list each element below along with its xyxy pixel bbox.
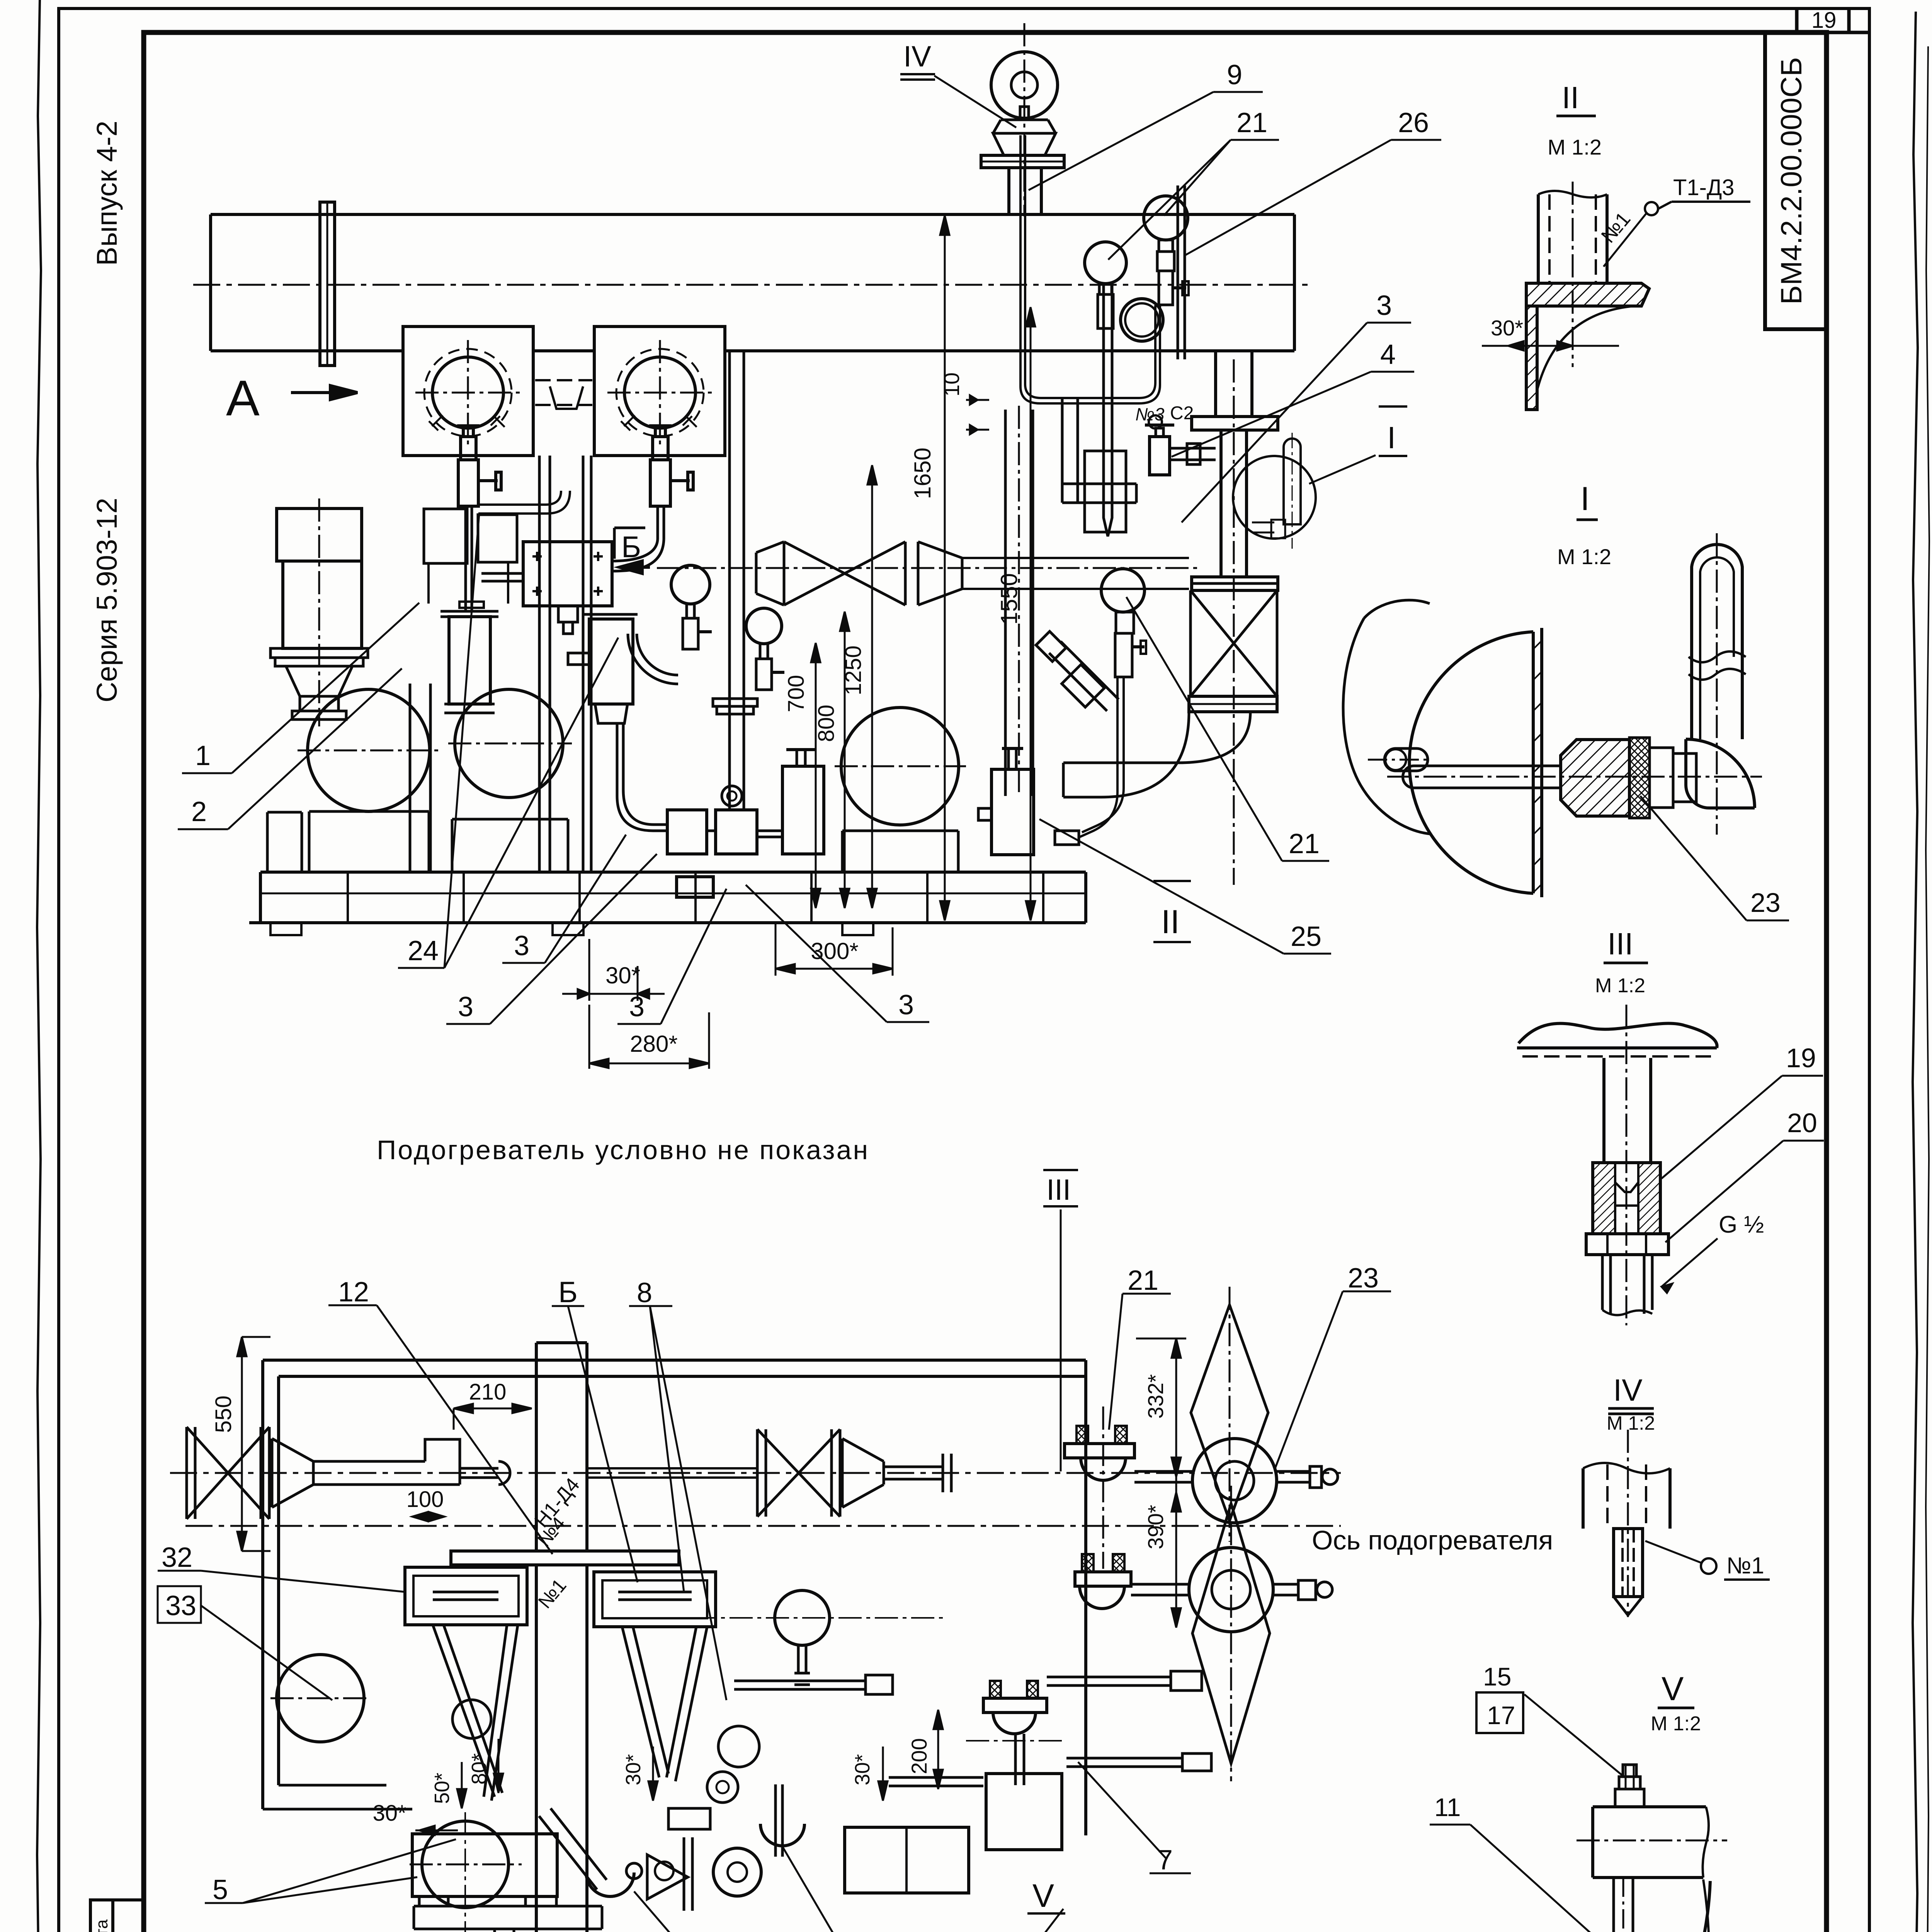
detail I dome arc <box>1409 632 1533 893</box>
svg-text:1250: 1250 <box>841 645 866 695</box>
dim 700 <box>815 643 817 908</box>
svg-text:3: 3 <box>1376 290 1392 321</box>
plan cone 2 <box>842 1439 884 1507</box>
plan pipe between <box>587 1468 757 1478</box>
detail II bracket curve <box>1537 306 1634 390</box>
svg-text:5: 5 <box>213 1874 228 1905</box>
svg-text:Б: Б <box>558 1276 578 1309</box>
svg-text:19: 19 <box>1786 1043 1816 1073</box>
plan fitting step <box>425 1439 510 1485</box>
gauge right 2 <box>1085 242 1126 284</box>
callout 21 low <box>1126 597 1329 861</box>
svg-text:БМ4.2.2.00.000СБ: БМ4.2.2.00.000СБ <box>1775 57 1808 305</box>
callout 5 <box>205 1839 456 1903</box>
callout Б <box>552 1306 638 1582</box>
svg-text:С2: С2 <box>1170 403 1194 423</box>
clamp assembly 1 <box>1065 1444 1134 1458</box>
svg-text:I: I <box>1387 420 1396 455</box>
gauge right 1 <box>1144 196 1188 240</box>
svg-text:М 1:2: М 1:2 <box>1548 135 1602 159</box>
gauge on stand pipe <box>1101 569 1145 612</box>
plan central column <box>536 1343 587 1932</box>
detail III mushroom cap <box>1519 1023 1717 1048</box>
svg-text:24: 24 <box>408 935 439 966</box>
callout 24 <box>398 514 618 968</box>
vertical drop pipe to valve train <box>730 351 744 811</box>
svg-text:19: 19 <box>1811 8 1837 33</box>
curved pipe from nozzle2 stem to box <box>612 539 664 571</box>
svg-text:20: 20 <box>1787 1108 1817 1138</box>
svg-text:IV: IV <box>1613 1373 1643 1407</box>
svg-text:210: 210 <box>469 1379 507 1405</box>
donut bottom middle <box>713 1848 761 1896</box>
callout 23 plan <box>1275 1291 1391 1468</box>
tray plate <box>451 1551 679 1565</box>
right vessel center <box>589 619 633 704</box>
flange above X valve <box>1190 582 1277 585</box>
plan trays <box>405 1567 527 1625</box>
svg-text:II: II <box>1161 903 1180 940</box>
diag fitting 45 <box>1049 641 1119 711</box>
svg-text:30*: 30* <box>372 1801 406 1826</box>
detail V bolt <box>1615 1789 1644 1807</box>
scan edge left <box>37 0 41 1932</box>
safety valve top <box>991 52 1058 118</box>
svg-text:11: 11 <box>1434 1793 1461 1821</box>
stand column between plates <box>539 456 591 872</box>
clamp circle mid <box>586 1872 634 1896</box>
dim 280* <box>588 1005 590 1069</box>
dim 550 <box>241 1337 243 1551</box>
pedestal pump3 <box>842 831 958 872</box>
right small vessel <box>782 766 824 854</box>
dim 1650 <box>944 216 946 920</box>
dim 30* right <box>882 1747 884 1801</box>
valve stem under nozzle 2 <box>649 426 693 539</box>
dim 390* <box>1175 1477 1177 1628</box>
svg-text:А: А <box>226 370 260 426</box>
plan outer frame <box>263 1360 1086 1835</box>
valve stem under nozzle 1 <box>457 426 501 611</box>
plan pipe axis 2 <box>185 1525 1341 1527</box>
svg-text:М 1:2: М 1:2 <box>1651 1713 1701 1735</box>
dim 800 <box>844 612 846 908</box>
svg-text:III: III <box>1046 1173 1071 1206</box>
svg-text:390*: 390* <box>1143 1505 1168 1549</box>
dim 1550 <box>1030 307 1032 920</box>
svg-text:200: 200 <box>907 1738 931 1774</box>
heater blob wavy <box>1343 600 1430 834</box>
stamp column frames <box>90 1900 143 1932</box>
right column nozzle <box>1216 351 1252 417</box>
callout 3c <box>617 889 726 1024</box>
gauge mid 1 <box>671 565 710 604</box>
dim 80* <box>498 1739 500 1793</box>
small round valve <box>722 786 742 806</box>
svg-text:21: 21 <box>1128 1265 1158 1296</box>
detail circle I <box>1233 456 1316 539</box>
detail IV label <box>1701 1558 1716 1574</box>
marker I leader <box>1309 455 1376 484</box>
detail II bracket horizontal leg <box>1526 283 1649 306</box>
UPPERVIEW <box>193 23 1430 935</box>
base frame <box>249 872 1086 923</box>
lower cross rod <box>734 1675 893 1694</box>
valve train cone left <box>756 542 784 605</box>
svg-text:30*: 30* <box>851 1754 874 1785</box>
heater pipe shell <box>211 214 1294 351</box>
nozzle circle 2 <box>624 357 696 428</box>
siphon circle <box>1121 299 1163 341</box>
svg-text:700: 700 <box>784 675 809 713</box>
svg-text:280*: 280* <box>630 1031 677 1057</box>
detail V pipe <box>1593 1807 1706 1878</box>
svg-text:8: 8 <box>637 1277 652 1308</box>
detail III hex flange <box>1586 1234 1668 1255</box>
motor unit left <box>277 509 362 561</box>
support box right of valve rod <box>478 515 517 562</box>
dim 30* <box>588 939 590 1001</box>
svg-text:V: V <box>1032 1878 1054 1914</box>
dim 100 <box>412 1516 444 1518</box>
svg-text:I: I <box>1580 480 1590 517</box>
small donut above <box>707 1772 738 1803</box>
view marker Б <box>626 566 650 569</box>
donut 1 <box>1192 1439 1277 1523</box>
u-clamp plate right <box>776 1784 782 1857</box>
dimensions upper view <box>562 216 1035 1069</box>
big rect bottom right <box>845 1827 969 1893</box>
posts near pump2 <box>410 684 430 872</box>
dim 300* <box>775 923 777 976</box>
detail I gland <box>1561 740 1629 816</box>
impulse tube from gauge down <box>1078 677 1124 838</box>
svg-text:30*: 30* <box>605 963 640 988</box>
svg-text:III: III <box>1607 927 1633 961</box>
diagonal strap <box>539 1808 607 1889</box>
dim 30* mid <box>652 1747 654 1801</box>
donut 2 <box>1189 1548 1273 1632</box>
detail III nut block <box>1593 1163 1660 1234</box>
doc number box vertical <box>1765 32 1827 329</box>
detail IV stub <box>1614 1529 1643 1597</box>
svg-text:2: 2 <box>191 796 207 827</box>
pump volute 1 <box>308 689 430 811</box>
detail I elbow <box>1686 739 1755 808</box>
callout 7 right <box>1078 1762 1191 1873</box>
detail IV pipe <box>1583 1468 1670 1529</box>
svg-text:9: 9 <box>1227 60 1242 90</box>
svg-text:№1: №1 <box>1597 208 1635 247</box>
lower pump assembly plan <box>412 1834 557 1896</box>
svg-text:100: 100 <box>406 1487 444 1512</box>
svg-text:26: 26 <box>1398 107 1429 138</box>
needle valve <box>1150 437 1170 475</box>
detail III threaded stem <box>1602 1255 1652 1314</box>
svg-text:7: 7 <box>1157 1845 1173 1876</box>
svg-text:G ½: G ½ <box>1719 1211 1764 1238</box>
dim 332* <box>1175 1338 1177 1477</box>
PLANVIEW <box>170 1287 1341 1932</box>
braces <box>433 1625 518 1801</box>
support box left of valve rod <box>424 509 467 563</box>
plate pair bottom middle <box>684 1837 692 1911</box>
svg-text:Серия 5.903-12: Серия 5.903-12 <box>91 498 123 702</box>
detail I dome wall <box>1533 628 1542 897</box>
gate valve X horizontal <box>784 542 918 605</box>
pipe from box to left stem <box>481 573 523 581</box>
svg-text:23: 23 <box>1348 1263 1379 1294</box>
svg-text:21: 21 <box>1289 828 1320 859</box>
dim 30* low <box>415 1830 458 1832</box>
pump volute 3 <box>841 707 959 825</box>
svg-text:550: 550 <box>211 1396 236 1433</box>
pedestal pump1 <box>267 811 429 872</box>
svg-text:12: 12 <box>338 1277 369 1308</box>
svg-text:21: 21 <box>1236 107 1267 138</box>
tray inner plates <box>433 1592 692 1600</box>
svg-text:IV: IV <box>903 40 931 73</box>
detail I knurled nut <box>1629 738 1650 818</box>
callout 2 <box>178 668 402 829</box>
svg-text:1550: 1550 <box>996 573 1022 624</box>
detail V tube down <box>1614 1878 1659 1932</box>
svg-text:17: 17 <box>1487 1701 1515 1730</box>
callout 8 <box>629 1306 726 1700</box>
plan pipe axis 1 <box>170 1472 1341 1474</box>
callout 32/33 left <box>158 1571 406 1700</box>
detail II pipe stub <box>1538 194 1607 283</box>
scan edge right <box>1913 12 1918 1932</box>
impulse pipe loop center <box>617 723 667 831</box>
thermowell tube <box>1104 284 1112 536</box>
nozzle circle 1 <box>432 357 503 428</box>
svg-text:1650: 1650 <box>910 447 935 499</box>
plan pipe segment <box>313 1461 425 1485</box>
svg-text:10: 10 <box>939 372 964 396</box>
svg-text:50*: 50* <box>430 1772 454 1804</box>
svg-text:Т1-Д3: Т1-Д3 <box>1673 175 1735 200</box>
svg-text:3: 3 <box>629 992 645 1022</box>
dim 200 <box>937 1710 939 1789</box>
valve train cone right <box>918 542 962 605</box>
callout 21 plan <box>1109 1294 1171 1430</box>
plan lower right piping <box>889 1777 983 1786</box>
pump volute 2 <box>455 689 563 798</box>
dim 210 <box>454 1408 532 1410</box>
plan valve X left <box>187 1427 269 1519</box>
clamp assembly 3 <box>983 1698 1047 1713</box>
callout 12 <box>328 1305 553 1554</box>
detail II bracket vertical leg <box>1526 306 1537 410</box>
callout 3b <box>446 854 657 1024</box>
marker IV leader <box>934 76 1016 128</box>
svg-text:№1: №1 <box>534 1575 570 1612</box>
svg-text:№3: №3 <box>1135 404 1165 424</box>
svg-text:4: 4 <box>1380 339 1396 370</box>
view arrow A <box>291 391 340 394</box>
plan dimensions <box>237 1337 1186 1835</box>
impulse tube big loop <box>1020 135 1160 403</box>
central apparatus box <box>523 542 612 606</box>
plan cone left <box>272 1439 313 1507</box>
pipe flange left <box>320 202 335 366</box>
svg-text:V: V <box>1662 1670 1684 1708</box>
svg-text:33: 33 <box>165 1590 196 1621</box>
detail III stem <box>1604 1058 1651 1163</box>
svg-text:М 1:2: М 1:2 <box>1557 544 1611 569</box>
clamp assembly 2 <box>1075 1572 1131 1586</box>
callout 26 <box>1185 140 1441 255</box>
svg-text:3: 3 <box>898 990 914 1020</box>
kite 1 <box>1191 1305 1268 1521</box>
pipe centerline <box>193 284 1312 286</box>
scan edge right outer <box>1926 46 1929 1932</box>
svg-text:800: 800 <box>814 705 839 742</box>
gate valve X right <box>1190 590 1277 696</box>
svg-text:25: 25 <box>1291 921 1321 952</box>
gauge mid 2 <box>746 608 782 644</box>
bracket post <box>1062 398 1136 503</box>
page number box 19 <box>1797 9 1869 32</box>
marker III line <box>1060 1209 1062 1471</box>
callout 25 <box>1039 819 1331 954</box>
level vessel bottom <box>992 769 1034 855</box>
callouts upper view <box>178 76 1441 1024</box>
detail I capsule <box>1692 544 1742 739</box>
plan callouts <box>158 1209 1391 1932</box>
callout 3d <box>746 885 929 1022</box>
svg-text:3: 3 <box>514 930 529 961</box>
marker V leader <box>1028 1909 1063 1932</box>
rect right mid <box>986 1774 1062 1850</box>
stand pipe mid右 <box>1005 410 1033 796</box>
callout 4 <box>1172 372 1414 457</box>
svg-text:№1: №1 <box>1726 1553 1764 1578</box>
svg-text:15: 15 <box>1483 1662 1511 1691</box>
callout 32/33 bottom <box>634 1891 764 1932</box>
svg-text:Подп. и дата: Подп. и дата <box>92 1919 111 1932</box>
svg-text:3: 3 <box>458 992 473 1022</box>
plate 1 <box>403 327 533 456</box>
svg-text:М 1:2: М 1:2 <box>1595 975 1645 997</box>
kite 2 <box>1192 1503 1270 1764</box>
gauge circle plan <box>775 1590 830 1645</box>
svg-text:М 1:2: М 1:2 <box>1607 1412 1655 1434</box>
C2 marker circle <box>1149 415 1162 429</box>
callout 7 bottom <box>782 1847 917 1932</box>
dim 10 <box>966 399 989 401</box>
svg-text:32: 32 <box>162 1542 192 1573</box>
detail I thermowell tube <box>1403 766 1561 788</box>
pedestal pump2 <box>452 819 568 872</box>
plan pump circle big left <box>277 1655 364 1742</box>
svg-text:30*: 30* <box>1491 316 1523 340</box>
bracket plate right of gauges <box>1178 185 1185 359</box>
svg-text:23: 23 <box>1750 888 1781 918</box>
plate 2 <box>594 327 725 456</box>
plan valve X 2 <box>757 1429 840 1517</box>
callout 9 <box>1029 92 1263 190</box>
rods right <box>1047 1677 1171 1685</box>
svg-text:300*: 300* <box>811 938 858 964</box>
dim 50* <box>461 1762 463 1808</box>
pipe valve1 to right <box>478 491 570 514</box>
left vessel <box>449 617 490 704</box>
plan small circles <box>452 1700 491 1738</box>
small rect fitting <box>668 1808 710 1829</box>
elbow to horizontal pipe <box>1063 712 1250 797</box>
detail I fittings <box>1650 748 1673 808</box>
callout 1 <box>182 603 419 773</box>
callout 3 right <box>1182 323 1411 522</box>
svg-text:II: II <box>1562 80 1579 115</box>
svg-text:Ось подогревателя: Ось подогревателя <box>1312 1525 1553 1555</box>
svg-text:80*: 80* <box>468 1753 491 1784</box>
svg-text:1: 1 <box>195 740 211 771</box>
svg-text:332*: 332* <box>1143 1374 1168 1418</box>
callout 3a <box>502 835 626 963</box>
detail V sickle <box>1636 1881 1710 1932</box>
callout 21 top <box>1108 140 1279 260</box>
svg-text:30*: 30* <box>622 1754 645 1785</box>
weld boxes bottom <box>667 810 707 854</box>
svg-text:Выпуск 4-2: Выпуск 4-2 <box>91 121 123 266</box>
dim 1250 <box>871 465 873 908</box>
quarter bend arc <box>628 634 678 684</box>
svg-text:Подогреватель условно не показ: Подогреватель условно не показан <box>377 1135 869 1165</box>
detail II weld circle <box>1645 202 1658 215</box>
svg-text:Б: Б <box>621 530 641 564</box>
